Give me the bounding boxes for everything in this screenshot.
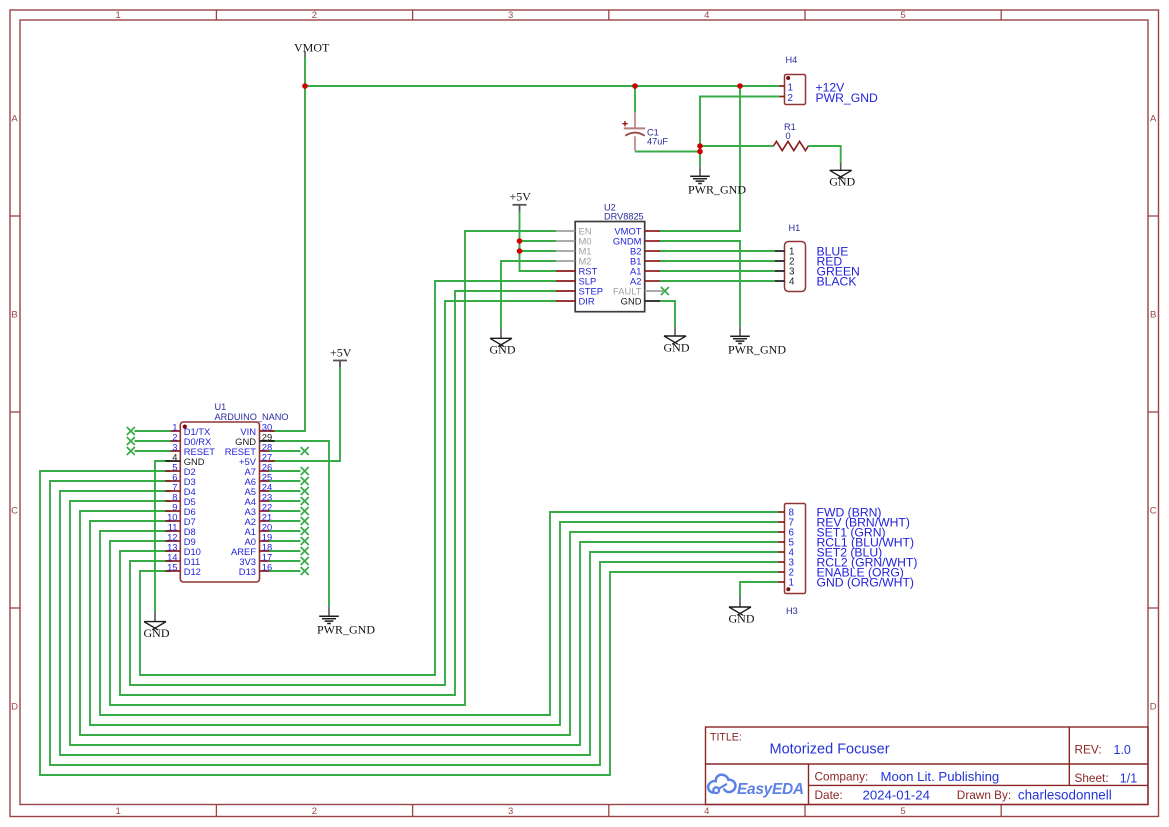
wire H3 pin1 to GND xyxy=(740,582,779,598)
wire U1 right NC xyxy=(270,530,301,532)
svg-text:C: C xyxy=(11,505,18,516)
wire U2 B1 to H1 pin2 xyxy=(660,260,775,262)
svg-text:4: 4 xyxy=(789,277,795,288)
svg-text:0: 0 xyxy=(786,131,791,141)
connector H1 xyxy=(775,223,806,292)
resistor R1 0 xyxy=(774,122,809,151)
svg-text:B: B xyxy=(11,309,17,320)
svg-text:3: 3 xyxy=(508,806,513,817)
svg-text:PWR_GND: PWR_GND xyxy=(728,343,786,357)
wire U1 D4 to H3 pin4 SET2 xyxy=(60,491,779,755)
ground PWR_GND (GNDM) xyxy=(728,326,786,356)
no-connect X U1 right xyxy=(301,567,309,575)
wire U2 VMOT pin to rail xyxy=(660,86,740,231)
svg-text:47uF: 47uF xyxy=(647,137,668,147)
ground GND (U1 pin4) xyxy=(144,612,170,640)
title block xyxy=(706,727,1149,805)
wire U2 M2 to GND xyxy=(501,261,556,329)
wire U1 D10 to U2 STEP xyxy=(120,291,556,695)
svg-text:BLACK: BLACK xyxy=(817,274,857,288)
wire R1 right to GND xyxy=(808,146,840,163)
junction C1 top xyxy=(632,83,638,89)
svg-text:2: 2 xyxy=(312,10,317,21)
svg-text:Sheet:: Sheet: xyxy=(1075,771,1109,785)
junction C1 bottom net xyxy=(697,149,703,155)
svg-text:GND: GND xyxy=(664,340,690,354)
wire U1 right NC xyxy=(270,470,301,472)
connector H4 xyxy=(780,55,806,105)
no-connect X U1 left xyxy=(127,447,135,455)
svg-text:GND: GND xyxy=(144,626,170,640)
wire U1 right NC xyxy=(270,550,301,552)
junction R1 net xyxy=(697,143,703,149)
wire VMOT rail horizontal to H4 pin1 xyxy=(305,85,780,87)
svg-text:DIR: DIR xyxy=(579,296,595,307)
svg-text:Date:: Date: xyxy=(815,788,843,802)
wire U2 A2 to H1 pin4 xyxy=(660,280,775,282)
no-connect X U1 right xyxy=(301,547,309,555)
wire U1 right NC xyxy=(270,450,301,452)
no-connect X U1 right xyxy=(301,497,309,505)
no-connect X U1 right xyxy=(301,477,309,485)
svg-text:VMOT: VMOT xyxy=(294,41,330,55)
junction M1 +5V xyxy=(517,248,523,254)
no-connect X U1 right xyxy=(301,447,309,455)
junction VMOT rail xyxy=(302,83,308,89)
wire U1 D9 to U2 EN xyxy=(110,231,556,705)
IC U2 DRV8825 xyxy=(556,202,663,311)
wire M1 tap xyxy=(520,250,557,252)
no-connect X U1 left xyxy=(127,427,135,435)
wire U1 right NC xyxy=(270,480,301,482)
wire U1 D7 to H3 pin7 REV xyxy=(90,521,779,725)
no-connect X U1 right xyxy=(301,537,309,545)
wire U1 +5V pin to +5V flag xyxy=(270,367,341,462)
wire U1 right NC xyxy=(270,560,301,562)
ground GND (R1) xyxy=(829,163,855,189)
no-connect X U1 right xyxy=(301,507,309,515)
no-connect X U1 right xyxy=(301,557,309,565)
no-connect X U1 right xyxy=(301,527,309,535)
no-connect X U1 right xyxy=(301,517,309,525)
connector H3 xyxy=(779,504,806,616)
wire U1 left NC xyxy=(135,430,171,432)
svg-text:PWR_GND: PWR_GND xyxy=(816,91,878,105)
svg-text:Company:: Company: xyxy=(815,770,869,784)
svg-text:5: 5 xyxy=(900,10,905,21)
junction U2 VMOT rail xyxy=(737,83,743,89)
svg-text:ARDUINO_NANO: ARDUINO_NANO xyxy=(215,412,289,422)
capacitor C1 47uF xyxy=(622,112,668,151)
svg-text:1: 1 xyxy=(116,10,121,21)
svg-text:PWR_GND: PWR_GND xyxy=(317,623,375,637)
svg-text:15: 15 xyxy=(167,562,177,573)
svg-text:EasyEDA: EasyEDA xyxy=(737,781,804,798)
wire U2 GND pin to GND xyxy=(660,301,675,327)
no-connect X U1 left xyxy=(127,437,135,445)
svg-text:GND: GND xyxy=(829,175,855,189)
wire U1 left NC xyxy=(135,450,171,452)
wire U1 right NC xyxy=(270,570,301,572)
wire U1 right NC xyxy=(270,500,301,502)
wire U1 D6 to H3 pin6 SET1 xyxy=(80,511,779,735)
wire U1 D12 to U2 SLP xyxy=(140,281,556,675)
wire U1 D11 to U2 DIR xyxy=(130,301,556,685)
svg-text:Moon Lit. Publishing: Moon Lit. Publishing xyxy=(881,769,1000,784)
svg-text:Motorized Focuser: Motorized Focuser xyxy=(770,742,890,758)
no-connect X U2 FAULT xyxy=(661,287,669,295)
power +5V (U2) xyxy=(510,190,532,212)
ground GND (U2 M2) xyxy=(490,329,516,357)
wire VMOT rail down to U1 VIN xyxy=(270,86,306,431)
svg-text:REV:: REV: xyxy=(1075,743,1102,757)
no-connect X U1 right xyxy=(301,487,309,495)
svg-text:DRV8825: DRV8825 xyxy=(604,212,644,222)
wire U1 left NC xyxy=(135,440,171,442)
svg-text:1: 1 xyxy=(789,578,794,589)
svg-text:4: 4 xyxy=(704,10,709,21)
ground GND (H3 pin1) xyxy=(729,598,755,626)
svg-text:TITLE:: TITLE: xyxy=(710,732,742,744)
wire U1 D8 to H3 pin8 FWD xyxy=(100,512,779,715)
svg-text:C: C xyxy=(1150,505,1157,516)
svg-text:D: D xyxy=(11,701,18,712)
ground PWR_GND (U1 pin29) xyxy=(317,606,375,636)
svg-text:A: A xyxy=(1150,113,1157,124)
svg-text:2: 2 xyxy=(788,93,793,104)
svg-text:1/1: 1/1 xyxy=(1120,771,1137,785)
svg-text:Drawn By:: Drawn By: xyxy=(957,788,1011,802)
svg-text:U1: U1 xyxy=(215,402,227,412)
wire U1 GND pin4 to GND xyxy=(155,461,171,612)
svg-text:1: 1 xyxy=(116,806,121,817)
no-connect X U1 right xyxy=(301,467,309,475)
wire M0 tap xyxy=(520,240,557,242)
svg-text:2: 2 xyxy=(312,806,317,817)
wire U2 A1 to H1 pin3 xyxy=(660,270,775,272)
wire U1 right NC xyxy=(270,520,301,522)
wire U1 right NC xyxy=(270,490,301,492)
svg-text:H4: H4 xyxy=(786,55,798,65)
svg-text:+5V: +5V xyxy=(510,190,532,204)
wire U1 D3 to H3 pin3 RCL2 xyxy=(50,481,779,765)
ground PWR_GND (C1 area) xyxy=(688,166,746,196)
wire VMOT flag to rail xyxy=(304,58,306,87)
svg-text:1.0: 1.0 xyxy=(1114,743,1131,757)
wire C1 bottom to junction xyxy=(635,151,700,153)
svg-text:D13: D13 xyxy=(239,566,256,577)
wire U1 GND pin29 to PWR_GND xyxy=(270,441,330,606)
svg-text:H1: H1 xyxy=(789,223,801,233)
svg-text:1: 1 xyxy=(788,83,793,94)
ground GND (U2 GND pin) xyxy=(664,327,690,355)
junction M0 +5V xyxy=(517,238,523,244)
svg-text:B: B xyxy=(1150,309,1156,320)
wire U2 B2 to H1 pin1 xyxy=(660,250,775,252)
IC U1 ARDUINO_NANO xyxy=(165,402,288,582)
svg-text:D: D xyxy=(1150,701,1157,712)
svg-text:GND: GND xyxy=(490,343,516,357)
wire +5V to U2 RST (and M0/M1 taps) xyxy=(520,212,557,272)
svg-text:5: 5 xyxy=(900,806,905,817)
svg-text:charlesodonnell: charlesodonnell xyxy=(1018,788,1112,803)
wire H4 pin2 to PWR_GND xyxy=(700,97,780,167)
EasyEDA logo xyxy=(708,775,804,799)
wire junction to R1 left xyxy=(700,145,774,147)
svg-text:2024-01-24: 2024-01-24 xyxy=(863,787,930,802)
wire U1 right NC xyxy=(270,540,301,542)
svg-text:+5V: +5V xyxy=(330,345,352,359)
wire U1 D2 to H3 pin2 ENABLE xyxy=(40,471,779,775)
svg-text:GND: GND xyxy=(621,296,642,307)
power +5V (U1) xyxy=(330,345,352,367)
wire C1 top to rail xyxy=(634,86,636,112)
wire U2 GNDM to PWR_GND xyxy=(660,241,740,326)
net flag VMOT xyxy=(294,41,330,58)
svg-text:4: 4 xyxy=(704,806,709,817)
svg-text:A: A xyxy=(11,113,18,124)
svg-text:H3: H3 xyxy=(786,606,798,616)
wire U1 right NC xyxy=(270,510,301,512)
svg-text:GND (ORG/WHT): GND (ORG/WHT) xyxy=(817,575,914,589)
svg-text:3: 3 xyxy=(508,10,513,21)
svg-text:GND: GND xyxy=(729,611,755,625)
svg-text:PWR_GND: PWR_GND xyxy=(688,183,746,197)
svg-text:D12: D12 xyxy=(184,566,201,577)
wire U1 D5 to H3 pin5 RCL1 xyxy=(70,501,779,745)
